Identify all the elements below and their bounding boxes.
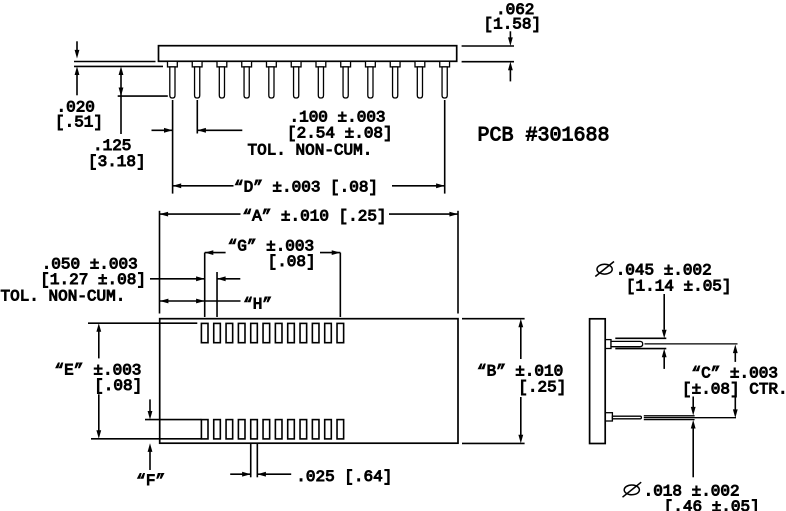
svg-text:[2.54 ±.08]: [2.54 ±.08] [287,125,393,143]
svg-text:[.25]: [.25] [518,378,566,396]
svg-text:[.08]: [.08] [94,377,142,395]
svg-text:PCB #301688: PCB #301688 [478,124,610,147]
svg-text:[1.14 ±.05]: [1.14 ±.05] [626,277,732,295]
svg-text:“A” ±.010 [.25]: “A” ±.010 [.25] [243,207,387,225]
svg-text:[1.58]: [1.58] [484,15,542,33]
svg-text:“D” ±.003 [.08]: “D” ±.003 [.08] [234,179,378,197]
svg-text:[3.18]: [3.18] [88,153,146,171]
svg-text:[1.27 ±.08]: [1.27 ±.08] [40,271,146,289]
svg-text:TOL. NON-CUM.: TOL. NON-CUM. [1,288,126,306]
svg-text:[±.08] CTR.: [±.08] CTR. [682,380,786,398]
svg-text:“F”: “F” [136,472,165,490]
svg-text:“E”: “E” [55,362,84,380]
svg-text:.025 [.64]: .025 [.64] [296,468,392,486]
svg-text:TOL. NON-CUM.: TOL. NON-CUM. [248,142,373,160]
svg-text:[.51]: [.51] [55,114,103,132]
svg-text:[.08]: [.08] [268,253,316,271]
svg-text:“H”: “H” [243,296,272,314]
svg-text:“B”: “B” [477,362,506,380]
svg-text:[.46 ±.05]: [.46 ±.05] [664,498,760,511]
